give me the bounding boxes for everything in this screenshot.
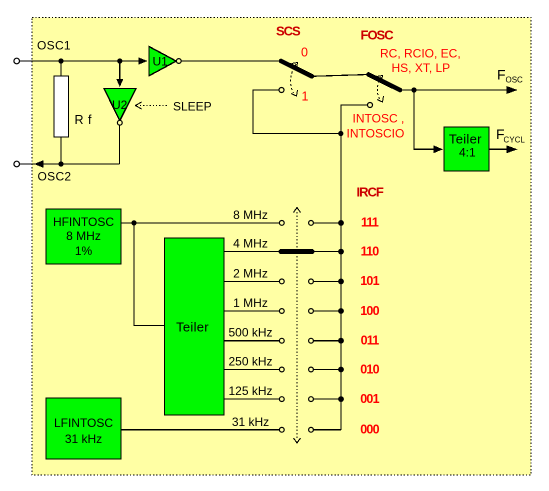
svg-text:100: 100 bbox=[360, 304, 379, 318]
dashed selector arrow bbox=[296, 212, 298, 438]
wire OSC2 bbox=[20, 163, 120, 165]
svg-text:CYCL: CYCL bbox=[504, 135, 526, 144]
node SCS position 1 contact bbox=[279, 88, 284, 93]
svg-text:250 kHz: 250 kHz bbox=[228, 355, 272, 369]
svg-text:F: F bbox=[497, 67, 506, 83]
svg-text:SCS: SCS bbox=[276, 24, 301, 39]
junction on OSC1 wire at Rf bbox=[58, 58, 63, 63]
junction OSC2/resistor bbox=[58, 161, 63, 166]
wire 4 MHz row bbox=[224, 251, 280, 253]
svg-text:111: 111 bbox=[361, 216, 379, 230]
svg-text:000: 000 bbox=[360, 423, 379, 437]
svg-text:R f: R f bbox=[75, 113, 93, 127]
wire SCS to FOSC switch bbox=[312, 75, 369, 77]
resistor Rf bbox=[54, 76, 69, 137]
wire 500 kHz row bbox=[224, 340, 279, 342]
contact circles left column bbox=[279, 221, 313, 433]
svg-text:OSC2: OSC2 bbox=[38, 169, 72, 183]
svg-text:1%: 1% bbox=[75, 244, 93, 258]
svg-text:500 kHz: 500 kHz bbox=[228, 326, 272, 340]
svg-text:SLEEP: SLEEP bbox=[173, 99, 212, 113]
wire 1 MHz row bbox=[224, 310, 279, 312]
wire HF to Teiler input bbox=[134, 223, 165, 326]
wire 2 MHz row bbox=[224, 280, 279, 282]
junction Fosc branch bbox=[411, 87, 416, 92]
svg-text:Teiler: Teiler bbox=[449, 132, 482, 147]
block LFINTOSC bbox=[46, 398, 121, 459]
wire FOSC output to Fosc arrow bbox=[400, 89, 508, 91]
switch SCS arm bbox=[281, 61, 312, 76]
svg-text:8 MHz: 8 MHz bbox=[233, 208, 268, 222]
svg-text:Teiler: Teiler bbox=[176, 320, 209, 335]
bus junction dots bbox=[338, 220, 344, 402]
wire resistor bottom to OSC2 line bbox=[60, 137, 62, 164]
svg-text:INTOSC ,: INTOSC , bbox=[353, 112, 405, 126]
wire U1 to SCS switch bbox=[181, 60, 281, 62]
svg-text:HS, XT, LP: HS, XT, LP bbox=[392, 61, 451, 75]
node FOSC internal contact bbox=[368, 103, 373, 108]
svg-text:31 kHz: 31 kHz bbox=[65, 432, 102, 446]
block Teiler bbox=[165, 238, 225, 415]
wire 8 MHz row bbox=[121, 222, 279, 224]
svg-text:110: 110 bbox=[361, 244, 380, 258]
wire 250 kHz row bbox=[224, 369, 279, 371]
svg-text:0: 0 bbox=[301, 46, 308, 60]
svg-text:125 kHz: 125 kHz bbox=[228, 384, 272, 398]
dotted arrow SLEEP bbox=[140, 105, 168, 107]
wiper bar 4 MHz selected bbox=[281, 249, 312, 254]
svg-text:8 MHz: 8 MHz bbox=[66, 229, 101, 243]
wire Teiler 4:1 output bbox=[489, 148, 508, 150]
svg-text:101: 101 bbox=[360, 274, 379, 288]
svg-text:1 MHz: 1 MHz bbox=[233, 296, 268, 310]
svg-text:4:1: 4:1 bbox=[459, 146, 476, 160]
svg-text:OSC1: OSC1 bbox=[37, 38, 71, 52]
wire 31 kHz row bbox=[121, 429, 279, 431]
svg-text:LFINTOSC: LFINTOSC bbox=[54, 416, 113, 430]
junction on OSC1 wire at U2 branch bbox=[117, 58, 122, 63]
wire U2 output down to OSC2 line bbox=[119, 125, 121, 164]
svg-text:RC, RCIO, EC,: RC, RCIO, EC, bbox=[380, 47, 461, 61]
mux rows bbox=[121, 223, 341, 430]
wire contact to INTOSC bus corner bbox=[341, 105, 367, 430]
svg-text:010: 010 bbox=[360, 362, 379, 376]
dashed arc SCS bbox=[291, 64, 296, 93]
svg-text:HFINTOSC: HFINTOSC bbox=[53, 215, 114, 229]
frequency labels bbox=[228, 208, 272, 429]
wire 125 kHz row bbox=[224, 398, 279, 400]
svg-text:001: 001 bbox=[360, 392, 379, 406]
svg-text:U2: U2 bbox=[112, 98, 128, 112]
wire OSC1 to U1 bbox=[20, 60, 140, 62]
svg-text:U1: U1 bbox=[153, 55, 169, 69]
block HFINTOSC bbox=[46, 209, 121, 264]
svg-text:2 MHz: 2 MHz bbox=[233, 266, 268, 280]
IRCF code labels bbox=[360, 216, 379, 437]
svg-text:31 kHz: 31 kHz bbox=[232, 415, 269, 429]
arrowhead toward OSC2 bbox=[34, 160, 44, 168]
junction on INTOSC vertical bbox=[338, 131, 343, 136]
dashed arc FOSC bbox=[377, 77, 381, 99]
node OSC2 terminal bbox=[14, 161, 20, 167]
inverter U2 bbox=[104, 89, 136, 121]
svg-text:1: 1 bbox=[302, 90, 309, 104]
switch FOSC arm bbox=[369, 75, 401, 91]
contact circles right column bbox=[309, 221, 314, 226]
svg-text:INTOSCIO: INTOSCIO bbox=[347, 127, 405, 141]
wire right stubs to bus bbox=[313, 222, 341, 224]
junction HF out bbox=[131, 220, 136, 225]
wire from contact 1 down to INTOSC bus bbox=[253, 90, 341, 134]
wire branch down into U2 with arrowhead bbox=[119, 61, 121, 80]
wire junction to resistor top bbox=[60, 61, 62, 76]
block Teiler 4:1 bbox=[444, 127, 489, 171]
svg-text:OSC: OSC bbox=[506, 76, 524, 85]
node OSC1 terminal bbox=[14, 58, 20, 64]
svg-text:4 MHz: 4 MHz bbox=[233, 237, 268, 251]
arrowhead into U1 bbox=[139, 57, 148, 64]
svg-text:FOSC: FOSC bbox=[361, 28, 395, 43]
svg-text:011: 011 bbox=[361, 334, 380, 348]
wire down to Teiler 4:1 bbox=[414, 90, 434, 149]
svg-text:IRCF: IRCF bbox=[357, 184, 384, 199]
buffer U1 bbox=[149, 47, 176, 76]
